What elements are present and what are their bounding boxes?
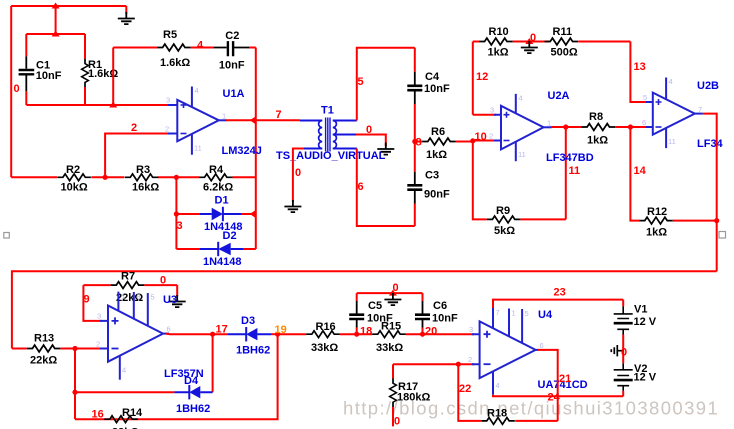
- resistor R11: [545, 26, 631, 59]
- wire node20 to U4 plus: [423, 333, 475, 335]
- capacitor C2: [213, 30, 249, 71]
- node 19 junction: [275, 332, 280, 337]
- node 8 junction: [412, 139, 417, 144]
- svg-text:0: 0: [366, 124, 372, 136]
- svg-text:D3: D3: [241, 315, 255, 327]
- svg-text:C6: C6: [433, 300, 447, 312]
- ground top-left: [125, 6, 127, 14]
- wire U2B out to right bus: [703, 114, 717, 272]
- wire feedback bus vertical: [255, 48, 257, 250]
- svg-text:10nF: 10nF: [219, 59, 245, 71]
- svg-text:23: 23: [554, 287, 566, 299]
- svg-text:11: 11: [569, 165, 581, 177]
- svg-text:5: 5: [358, 76, 364, 88]
- svg-text:0: 0: [393, 282, 399, 294]
- resistor R18: [481, 408, 558, 425]
- svg-text:10: 10: [475, 131, 487, 143]
- wire box top: [26, 33, 85, 35]
- svg-text:D4: D4: [184, 375, 199, 387]
- svg-text:21: 21: [559, 373, 571, 385]
- svg-text:C4: C4: [425, 71, 440, 83]
- svg-text:0: 0: [530, 32, 536, 44]
- ground C5C6: [384, 293, 401, 305]
- svg-text:R18: R18: [487, 408, 507, 420]
- svg-text:1BH62: 1BH62: [176, 403, 210, 415]
- svg-text:18: 18: [360, 326, 372, 338]
- rail ground junction tick: [389, 290, 397, 296]
- svg-text:0: 0: [621, 347, 627, 359]
- D1 junction right: [250, 210, 256, 218]
- wire R1 branch: [84, 34, 86, 105]
- node 10 junction: [470, 138, 475, 143]
- resistor R9: [487, 205, 566, 237]
- svg-text:6: 6: [167, 325, 171, 334]
- wire node2 riser: [105, 134, 170, 178]
- svg-text:3: 3: [469, 325, 473, 334]
- svg-text:R5: R5: [163, 29, 177, 41]
- wire node17 vertical: [212, 334, 214, 392]
- svg-text:1kΩ: 1kΩ: [587, 135, 608, 147]
- op-amp U4: [468, 308, 588, 395]
- node junction R13: [72, 346, 77, 351]
- svg-text:9: 9: [84, 294, 90, 306]
- svg-text:24: 24: [548, 392, 561, 404]
- svg-text:8: 8: [137, 292, 141, 301]
- svg-text:3: 3: [166, 96, 170, 105]
- svg-text:R8: R8: [589, 111, 603, 123]
- svg-text:0: 0: [394, 416, 400, 428]
- diode D4: [75, 375, 213, 415]
- wire U2A out row: [551, 126, 582, 128]
- svg-text:4: 4: [197, 40, 204, 52]
- node 20 junction: [420, 332, 425, 337]
- svg-text:13: 13: [634, 61, 646, 73]
- svg-text:D2: D2: [223, 230, 237, 242]
- wire left vertical: [10, 6, 12, 177]
- wire node10 to R9: [473, 141, 487, 220]
- svg-text:6: 6: [540, 341, 544, 350]
- svg-text:1.6kΩ: 1.6kΩ: [160, 57, 190, 69]
- svg-text:500Ω: 500Ω: [551, 47, 578, 59]
- svg-text:22: 22: [459, 383, 471, 395]
- svg-text:R3: R3: [136, 164, 150, 176]
- resistor R3: [105, 164, 176, 194]
- ground tap V: [611, 345, 623, 356]
- svg-text:T1: T1: [321, 105, 334, 117]
- svg-text:0: 0: [295, 167, 301, 179]
- resistor R13: [12, 333, 75, 367]
- svg-text:3: 3: [177, 220, 183, 232]
- svg-text:LF347BD: LF347BD: [546, 152, 594, 164]
- svg-text:R6: R6: [431, 126, 445, 138]
- svg-text:1: 1: [547, 119, 551, 128]
- diode D1: [176, 195, 255, 234]
- wire U4 minus row: [393, 363, 474, 365]
- svg-text:U2A: U2A: [548, 90, 570, 102]
- wire T1 tap to ground: [356, 135, 386, 147]
- R12 right junction: [714, 218, 719, 223]
- svg-text:R9: R9: [496, 205, 510, 217]
- svg-text:33kΩ: 33kΩ: [376, 342, 403, 354]
- node 18 junction: [354, 332, 359, 337]
- svg-text:22kΩ: 22kΩ: [30, 355, 57, 367]
- battery V2: [614, 363, 657, 391]
- svg-text:10nF: 10nF: [367, 313, 393, 325]
- wire node 6: [357, 149, 415, 227]
- node 17 junction: [210, 332, 215, 337]
- U2A out junction: [563, 124, 568, 129]
- node 3 junction: [174, 175, 179, 180]
- resistor R16: [278, 321, 357, 354]
- node C junction: [109, 102, 117, 108]
- wire rail 24: [493, 395, 623, 397]
- svg-text:11: 11: [518, 150, 526, 159]
- resistor R1: [82, 59, 119, 87]
- wire D-left vertical: [175, 177, 177, 249]
- svg-text:3: 3: [97, 312, 101, 321]
- D1 junction left: [174, 211, 179, 216]
- svg-text:R16: R16: [316, 321, 336, 333]
- svg-text:11: 11: [668, 137, 676, 146]
- wire R5 riser: [112, 48, 114, 106]
- svg-text:C3: C3: [425, 170, 439, 182]
- resistor R10: [473, 26, 521, 59]
- svg-text:2: 2: [165, 125, 169, 134]
- svg-text:90nF: 90nF: [424, 189, 450, 201]
- svg-text:R2: R2: [66, 164, 80, 176]
- node B junction: [52, 31, 60, 37]
- svg-text:2: 2: [131, 122, 137, 134]
- svg-text:1kΩ: 1kΩ: [646, 227, 667, 239]
- svg-text:11: 11: [194, 144, 202, 153]
- svg-text:6: 6: [358, 181, 364, 193]
- svg-text:5kΩ: 5kΩ: [494, 225, 515, 237]
- ground R7: [169, 295, 186, 307]
- svg-text:180kΩ: 180kΩ: [397, 392, 430, 404]
- wire V1 to V2: [622, 335, 624, 364]
- resistor R7: [83, 271, 177, 305]
- wire C1 branch: [25, 34, 27, 105]
- wire U3 minus feedback vertical: [74, 349, 76, 420]
- svg-text:3: 3: [490, 106, 494, 115]
- svg-text:R14: R14: [122, 407, 143, 419]
- svg-text:16: 16: [92, 409, 104, 421]
- svg-text:12: 12: [476, 71, 488, 83]
- svg-text:1kΩ: 1kΩ: [488, 47, 509, 59]
- node 14 junction: [628, 124, 633, 129]
- ground T1 primary: [284, 200, 301, 212]
- wire top rail: [11, 5, 126, 7]
- capacitor C4: [407, 48, 450, 142]
- svg-text:1BH62: 1BH62: [236, 345, 270, 357]
- svg-text:12 V: 12 V: [634, 316, 657, 328]
- D4 junction: [72, 390, 77, 395]
- svg-text:1: 1: [512, 309, 516, 318]
- svg-text:1kΩ: 1kΩ: [426, 149, 447, 161]
- svg-text:U3: U3: [163, 294, 177, 306]
- svg-text:1N4148: 1N4148: [203, 256, 242, 268]
- wire T1 primary bottom to ground: [293, 149, 304, 203]
- wire U1A output row: [226, 119, 300, 121]
- svg-text:U4: U4: [538, 309, 553, 321]
- svg-text:4: 4: [122, 366, 126, 375]
- svg-text:5: 5: [151, 293, 155, 302]
- wire R5 row: [113, 47, 213, 49]
- ground junction tick: [525, 38, 533, 44]
- battery V1: [614, 300, 657, 335]
- op-amp U3: [96, 292, 204, 381]
- svg-text:5: 5: [643, 93, 647, 102]
- svg-text:2: 2: [489, 132, 493, 141]
- svg-text:1: 1: [121, 292, 125, 301]
- svg-text:33kΩ: 33kΩ: [311, 342, 338, 354]
- op-amp U2B: [642, 77, 724, 150]
- svg-text:U2B: U2B: [697, 80, 719, 92]
- svg-text:10nF: 10nF: [432, 313, 458, 325]
- svg-text:4: 4: [669, 77, 673, 86]
- svg-text:4: 4: [496, 381, 500, 390]
- svg-text:1: 1: [222, 112, 226, 121]
- svg-text:R11: R11: [553, 26, 573, 38]
- svg-text:10nF: 10nF: [424, 83, 450, 95]
- resistor R6: [415, 126, 473, 161]
- resistor R4: [176, 164, 255, 194]
- port marker right: [719, 232, 726, 239]
- svg-text:LF34: LF34: [697, 138, 724, 150]
- node 2 junction: [103, 175, 108, 180]
- wire long middle rail: [12, 271, 717, 348]
- capacitor C5: [349, 293, 393, 334]
- wire node 5: [357, 48, 415, 121]
- capacitor C3: [407, 142, 450, 227]
- wire box bottom / +input row: [26, 104, 172, 106]
- svg-text:12 V: 12 V: [634, 372, 657, 384]
- wire R9 feedback riser: [565, 127, 567, 219]
- transformer T1: [276, 105, 386, 163]
- resistor R8: [582, 111, 649, 147]
- svg-text:16kΩ: 16kΩ: [132, 182, 159, 194]
- wire node 10 row: [473, 141, 496, 142]
- resistor R14: [104, 407, 143, 429]
- wire node 12: [473, 42, 496, 115]
- op-amp U1A: [165, 86, 262, 157]
- wire mid rail: [521, 41, 549, 43]
- svg-text:7: 7: [276, 109, 282, 121]
- resistor R12: [639, 206, 717, 239]
- wire U4 pin7 to rail 23: [493, 300, 623, 308]
- node 7 junction: [250, 116, 256, 124]
- wire R7 to ground: [176, 285, 178, 296]
- resistor R5: [157, 29, 191, 69]
- wire junction drop: [55, 6, 57, 34]
- wire U4 output: [538, 350, 558, 421]
- svg-text:4: 4: [195, 86, 199, 95]
- svg-text:4: 4: [519, 94, 523, 103]
- svg-text:7: 7: [698, 105, 702, 114]
- op-amp U2A: [489, 90, 594, 164]
- svg-text:LM324J: LM324J: [222, 145, 262, 157]
- diode D2: [176, 230, 255, 268]
- R18 junction: [456, 362, 461, 367]
- svg-text:10nF: 10nF: [36, 70, 62, 82]
- capacitor C1: [19, 56, 62, 91]
- wire C5C6 top rail: [357, 292, 423, 294]
- ground R10R11: [521, 41, 538, 53]
- svg-text:C2: C2: [225, 30, 239, 42]
- svg-text:6: 6: [642, 118, 646, 127]
- resistor R2: [11, 164, 105, 194]
- wire R13 to U3 minus: [75, 348, 102, 350]
- svg-text:14: 14: [634, 165, 647, 177]
- svg-text:R12: R12: [647, 206, 667, 218]
- resistor R15: [357, 321, 423, 355]
- svg-text:17: 17: [216, 324, 228, 336]
- resistor R17: [390, 364, 431, 426]
- svg-text:5: 5: [525, 309, 529, 318]
- svg-text:7: 7: [496, 308, 500, 317]
- wire U3 out row: [166, 333, 228, 336]
- svg-text:V1: V1: [634, 304, 647, 316]
- svg-text:2: 2: [468, 355, 472, 364]
- svg-text:0: 0: [14, 83, 20, 95]
- svg-text:10kΩ: 10kΩ: [61, 182, 88, 194]
- port marker left: [4, 233, 10, 239]
- svg-text:20: 20: [425, 326, 437, 338]
- svg-text:C5: C5: [368, 300, 382, 312]
- svg-text:R4: R4: [209, 164, 224, 176]
- svg-text:R10: R10: [489, 26, 509, 38]
- wire node 14 vertical: [630, 127, 639, 221]
- wire node 13: [630, 42, 648, 103]
- ground T1 tap: [377, 143, 394, 155]
- wire node 9: [83, 285, 101, 321]
- wire V2 to rail 24: [622, 391, 624, 396]
- svg-text:0: 0: [160, 275, 166, 287]
- capacitor C6: [415, 293, 458, 334]
- node A junction: [52, 3, 60, 9]
- svg-text:2: 2: [96, 340, 100, 349]
- wire node19 vertical: [75, 334, 278, 419]
- diode D3: [228, 315, 271, 357]
- wire R18 branch vertical: [458, 364, 481, 421]
- svg-text:6.2kΩ: 6.2kΩ: [203, 182, 233, 194]
- svg-text:D1: D1: [215, 195, 229, 207]
- wire C2 to bus: [249, 47, 256, 49]
- wire D3 to node 19: [271, 333, 278, 335]
- svg-text:U1A: U1A: [223, 88, 245, 100]
- svg-text:R7: R7: [121, 271, 135, 283]
- svg-text:R13: R13: [34, 333, 54, 345]
